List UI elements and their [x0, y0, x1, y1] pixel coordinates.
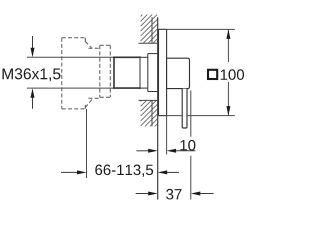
valve body tube (thread M36) top line: [27, 56, 114, 58]
wall hatch (bottom): [141, 100, 158, 126]
wall inner line (bottom): [151, 100, 153, 126]
hidden cone chamfer top (dashed): [85, 42, 92, 49]
label M36x1,5: [3, 68, 61, 81]
wall hole edge (bottom): [139, 99, 158, 101]
dimension arrow (thread dia, bottom): [31, 88, 35, 109]
dimension 37 right arrow: [191, 192, 214, 196]
label 37: [166, 189, 181, 200]
label 10: [180, 140, 195, 151]
hidden cone chamfer bottom (dashed): [85, 99, 92, 108]
extension line plate top (to dim 100): [158, 28, 235, 30]
extension line plate front (for dim 10): [166, 116, 168, 155]
hidden nut outline (dashed): [62, 38, 86, 109]
dimension arrow (thread dia, top): [31, 36, 35, 57]
dimension 10 right arrow: [167, 149, 196, 153]
neck section lines: [140, 56, 148, 58]
dashed thread-end line: [61, 38, 63, 109]
dimension line 100 (vertical): [227, 29, 229, 62]
dimension 37 left arrow: [136, 192, 158, 196]
dimension 66-113,5 left arrow: [61, 170, 87, 174]
wall inner line (top): [151, 17, 153, 43]
handle body box: [167, 58, 190, 88]
escutcheon plate (square 100) side view: [159, 29, 167, 115]
cartridge housing (solid, thick): [113, 57, 140, 88]
dimension 66-113,5 right arrow: [158, 170, 179, 174]
hidden cylinder top edge (dashed): [89, 47, 100, 49]
label 66-113,5: [95, 165, 153, 177]
extension line rear stop (66-113,5 left): [86, 109, 88, 178]
hidden cylinder bottom edge (dashed): [89, 97, 100, 99]
valve body tube bottom line: [27, 87, 114, 89]
extension line plate bottom (to dim 100): [158, 115, 183, 117]
handle lever bar: [182, 89, 187, 128]
flange at wall: [148, 54, 158, 92]
arrow 100 top: [226, 29, 230, 39]
dimension 10 left arrow: [137, 149, 158, 153]
wall hatch (top): [141, 15, 158, 43]
wall hole edge (top): [139, 42, 158, 44]
extension line handle tip (for dim 37): [190, 91, 192, 137]
housing joint line: [139, 56, 141, 89]
arrow 100 bottom: [226, 106, 230, 116]
wall face line (also extension for dims): [157, 17, 159, 199]
hidden sleeve rectangle (dashed): [100, 45, 111, 97]
label square-100: [208, 69, 244, 80]
